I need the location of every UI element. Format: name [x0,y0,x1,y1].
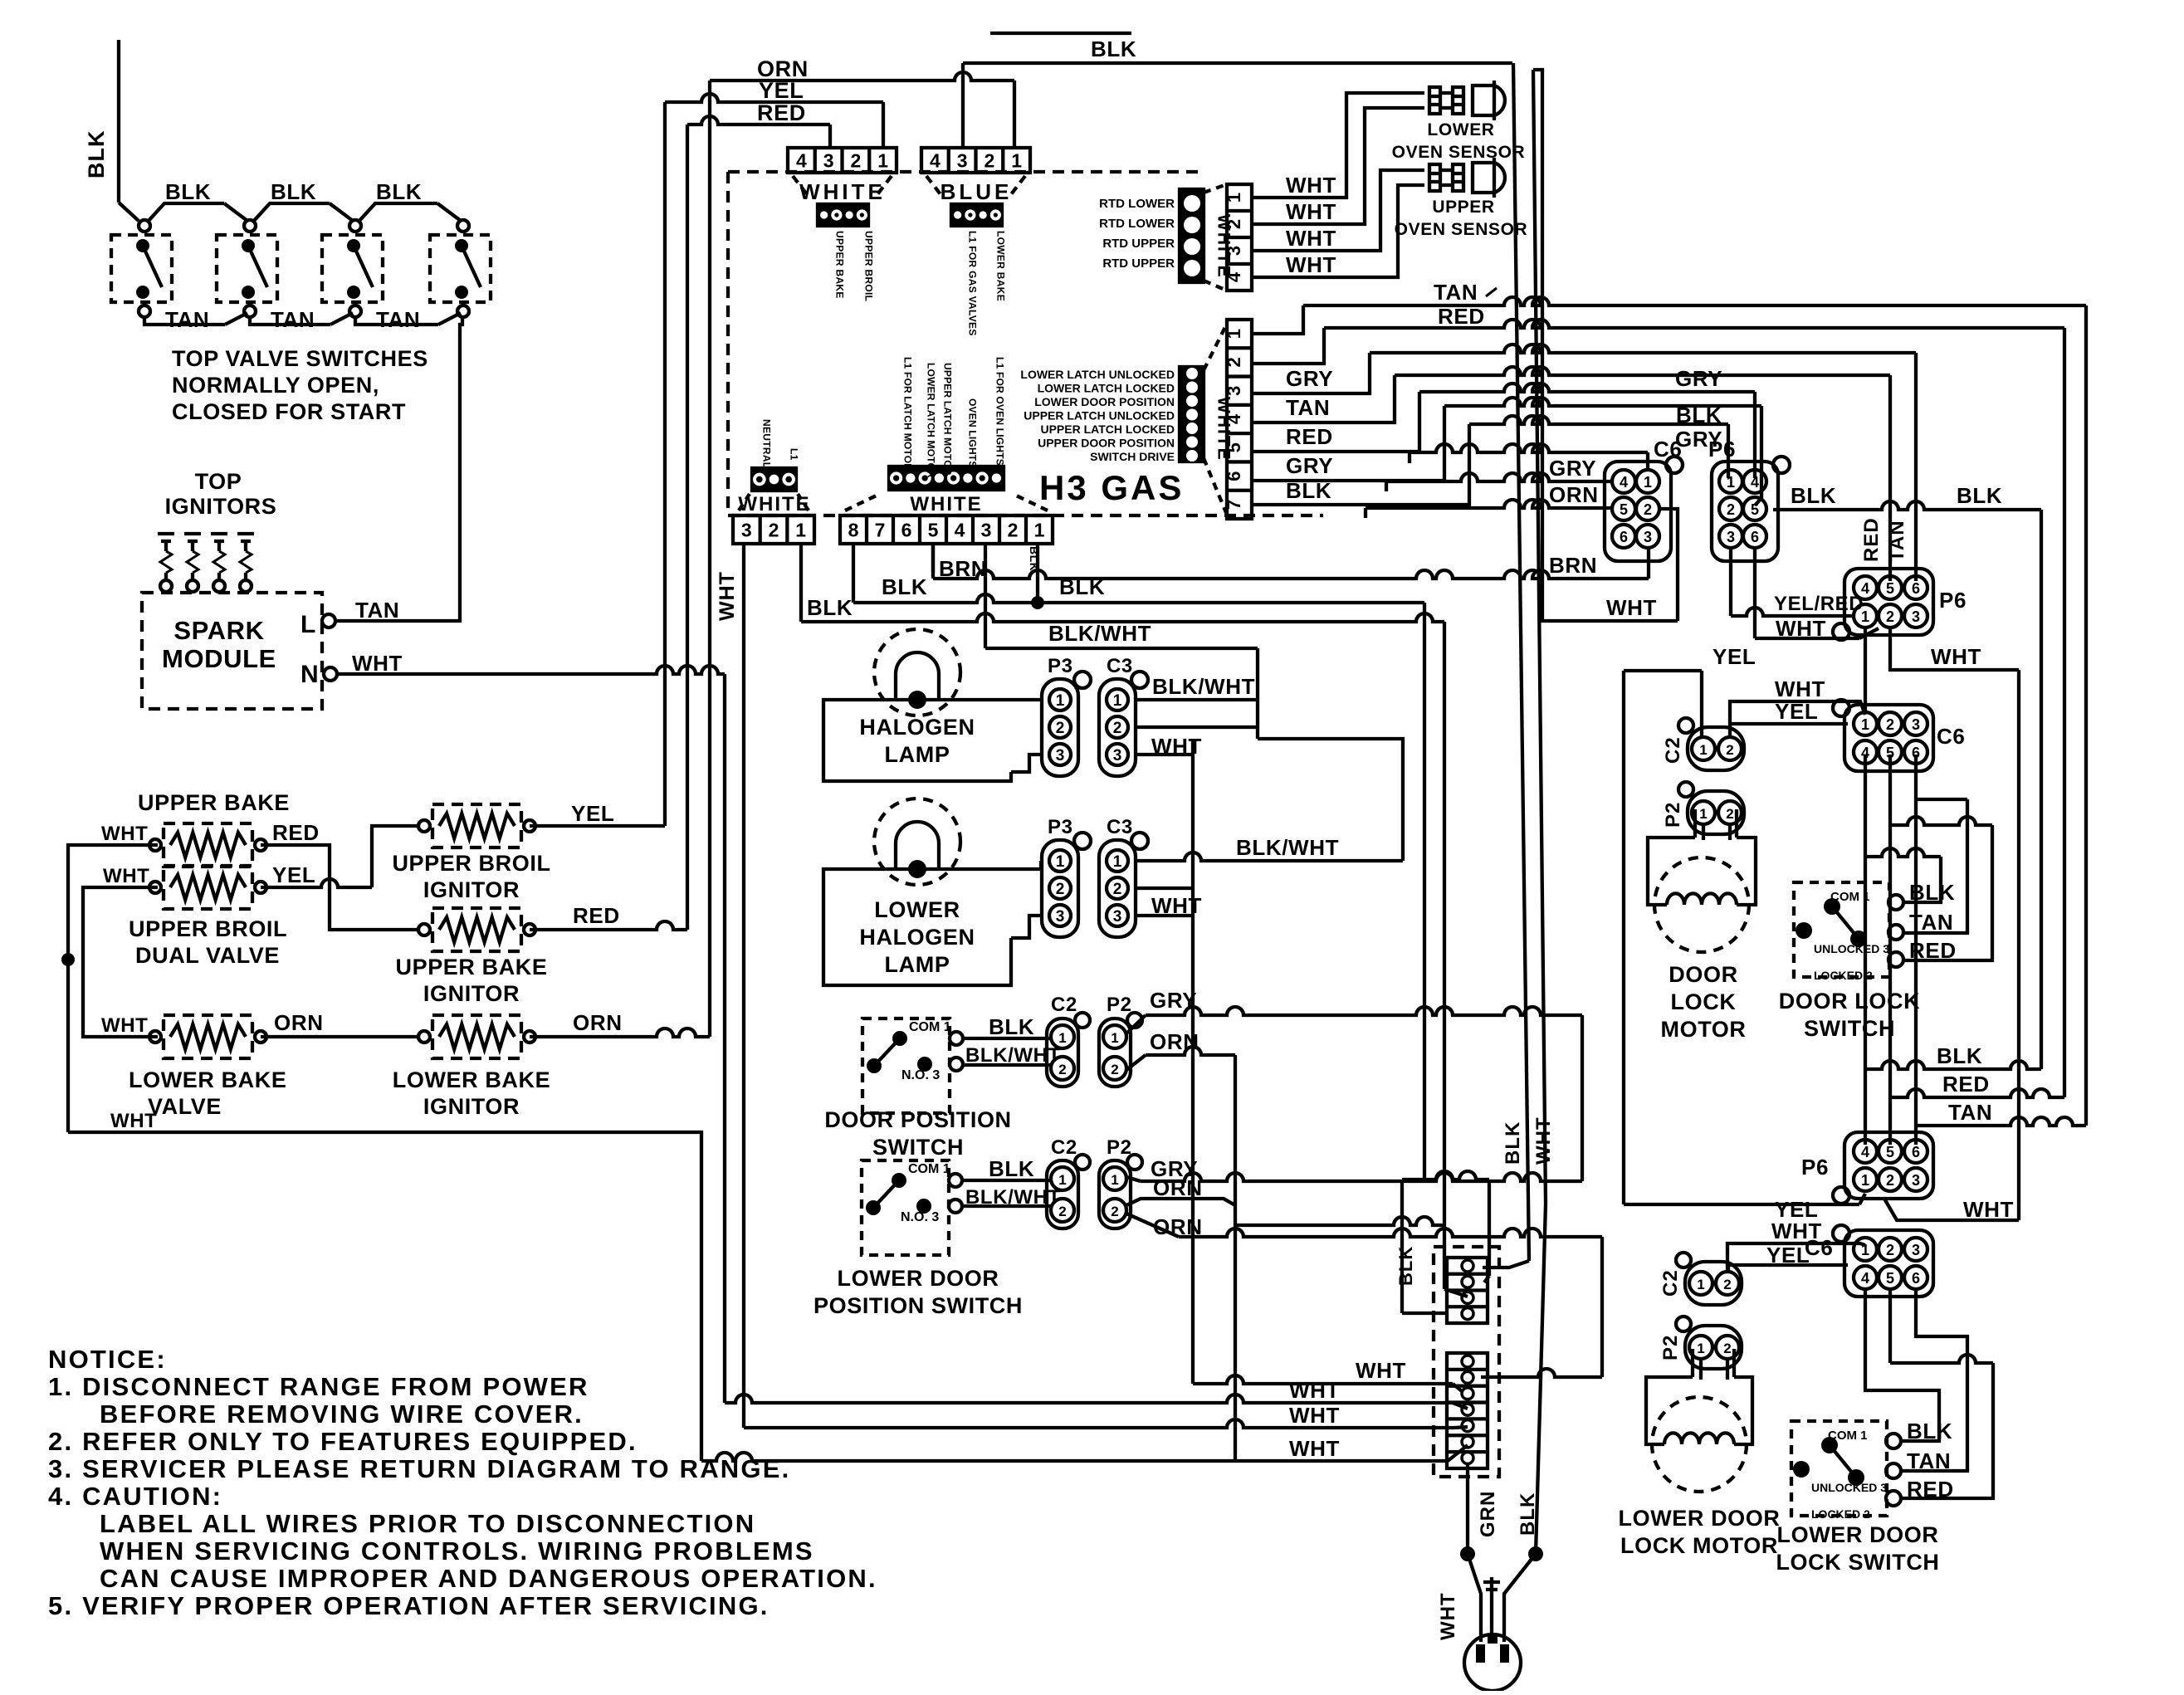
svg-text:WHT: WHT [101,823,148,845]
svg-text:WHT: WHT [1775,677,1825,701]
svg-text:1: 1 [1697,1341,1704,1356]
wire ORN to top riser [530,1028,710,1037]
wire lamp to P3 pin3 [1011,755,1042,772]
svg-text:3: 3 [1056,908,1065,926]
connector P3 lower [1042,840,1078,937]
svg-text:BLK: BLK [807,595,853,620]
svg-text:WHT: WHT [1286,252,1336,277]
svg-text:2: 2 [1886,1172,1894,1189]
lower door lock switch [1791,1421,1887,1516]
svg-text:OVEN LIGHTS: OVEN LIGHTS [966,398,978,468]
svg-text:ORN: ORN [1153,1214,1203,1239]
svg-text:RTD UPPER: RTD UPPER [1102,256,1175,271]
svg-text:SWITCH: SWITCH [1804,1016,1895,1041]
line segment above BLK [990,32,1131,35]
svg-text:P3: P3 [1048,816,1073,838]
svg-text:LOWER DOOR: LOWER DOOR [838,1266,999,1291]
wire WHT to P6h pin2 [1753,548,1756,638]
svg-text:LOWER: LOWER [874,897,960,922]
wire BLK long vertical to lower strip [1513,63,1529,1261]
wire WHT bottom run [68,1132,701,1461]
wire WHT vertical to bottom strip [723,674,726,1403]
svg-text:WHT: WHT [103,865,149,887]
svg-text:2: 2 [1726,806,1733,822]
connector strip WHITE 4321 [788,148,897,173]
svg-text:YEL: YEL [1775,699,1818,724]
lower bake ignitor [432,1015,521,1058]
svg-text:DUAL VALVE: DUAL VALVE [135,943,280,968]
svg-text:6: 6 [1224,471,1244,481]
svg-text:1: 1 [1699,806,1707,822]
wire YEL/RED to P6h pin1 [1729,548,1732,616]
svg-text:YEL: YEL [1766,1243,1810,1268]
svg-text:1: 1 [1056,853,1065,871]
svg-text:C3: C3 [1107,816,1133,838]
svg-text:TAN: TAN [1886,520,1908,562]
wire lamp box to P3L pin3 [1011,916,1042,938]
svg-text:UPPER BAKE: UPPER BAKE [138,790,290,815]
svg-text:IGNITOR: IGNITOR [423,981,520,1006]
wire C6L pin6 to TAN [1903,1288,1967,1471]
wire WHT from strip pin3 [742,544,745,1428]
wire WHT C3 pin3 [1136,753,1193,756]
svg-text:3: 3 [741,519,752,540]
svg-text:WHT: WHT [1356,1358,1406,1383]
svg-text:BLK: BLK [989,1156,1034,1181]
svg-text:BLUE: BLUE [941,179,1013,204]
wire GRY to C6u pin1 [1408,452,1411,463]
lower door position switch [862,1160,949,1255]
svg-text:3: 3 [1912,1242,1920,1258]
svg-text:4: 4 [1861,1270,1869,1287]
wire BLK link [253,203,330,222]
svg-text:UPPER BAKE: UPPER BAKE [395,955,547,979]
wire C3 pin2 riser [1136,725,1258,729]
svg-text:LAMP: LAMP [885,952,950,977]
svg-text:2: 2 [769,519,779,540]
svg-text:5: 5 [1886,1270,1894,1287]
svg-text:BLK: BLK [165,179,211,204]
wire lamp to P3L pin1 [917,861,1041,869]
svg-text:TAN: TAN [271,307,315,332]
top valve switch S4 box [430,235,491,302]
wire BLK/WHT switch to C2 lower [962,1204,1051,1208]
svg-text:1. DISCONNECT RANGE FROM POWE: 1. DISCONNECT RANGE FROM POWER [48,1372,589,1401]
svg-text:GRY: GRY [1286,453,1333,478]
svg-text:WHITE: WHITE [1214,397,1234,462]
connector C6 horizontal upper [1844,705,1933,771]
svg-text:GRY: GRY [1549,456,1596,481]
connector strip 87654321 [840,515,1053,544]
connector P2 lower door [1099,1160,1131,1229]
H3 GAS board dashed outline [728,170,1204,173]
svg-text:WHT: WHT [1776,616,1826,641]
svg-text:WHT: WHT [1931,644,1981,669]
svg-text:WHT: WHT [1437,1592,1459,1640]
svg-text:LOWER: LOWER [1427,120,1494,139]
svg-text:BLK: BLK [1937,1043,1982,1068]
wire TAN branch [1916,1117,2086,1126]
svg-text:WHT: WHT [1286,226,1336,251]
wire TAN bus (pin4) [1252,375,1395,423]
connector bar latch [1180,367,1204,462]
svg-text:BEFORE REMOVING WIRE COVER.: BEFORE REMOVING WIRE COVER. [100,1399,584,1429]
svg-text:UPPER: UPPER [1432,198,1494,217]
svg-text:BLK: BLK [1091,37,1136,61]
wire YEL to top riser [530,824,665,828]
halogen lamp box upper [823,700,1011,781]
wire BLK branch into strip1 pin4 [1400,1180,1404,1313]
svg-text:MODULE: MODULE [162,644,276,673]
wire ORN link between switches [1126,1199,1235,1205]
svg-text:RED: RED [1942,1072,1990,1097]
svg-text:C2: C2 [1659,1269,1682,1297]
svg-text:4: 4 [1620,474,1628,491]
wire WHT C2L to C6L pin1 [1727,1243,1865,1273]
wire WHT sensor 1 [1252,93,1424,198]
wire ORN to C6 pin5 [1364,508,1367,518]
svg-text:WHT: WHT [1286,199,1336,224]
svg-text:VALVE: VALVE [148,1094,222,1119]
svg-text:1: 1 [1056,692,1065,710]
connector bar RTD [1180,189,1204,282]
svg-text:1: 1 [795,519,806,540]
svg-text:IGNITOR: IGNITOR [423,877,520,902]
wire BLK/WHT C3L pin1 [1136,852,1403,861]
svg-text:BLK: BLK [1957,483,2002,508]
wire WHT C3L pin3 and vertical [1136,914,1193,917]
svg-text:RTD LOWER: RTD LOWER [1099,197,1175,211]
svg-text:IGNITOR: IGNITOR [423,1094,520,1119]
svg-text:1: 1 [1111,1172,1118,1188]
svg-text:C3: C3 [1107,655,1133,677]
wire ORN right tail [1600,1237,1604,1377]
wire RED top [687,116,830,125]
connector P2 lower right [1685,1326,1742,1369]
connector P2 door [1099,1018,1131,1087]
svg-text:BLK: BLK [84,130,109,179]
svg-text:P2: P2 [1659,1335,1682,1360]
svg-text:8: 8 [848,519,859,540]
svg-text:WHT: WHT [1963,1197,2014,1222]
svg-text:C6: C6 [1937,724,1965,749]
svg-text:2: 2 [850,149,861,171]
svg-text:YEL: YEL [759,78,804,103]
svg-text:MOTOR: MOTOR [1661,1017,1747,1042]
connector bar blue [951,204,1002,226]
svg-text:ORN: ORN [1549,482,1599,507]
top valve switch S3 contacts [349,220,361,232]
svg-text:WHEN SERVICING CONTROLS. WIRIN: WHEN SERVICING CONTROLS. WIRING PROBLEMS [100,1536,814,1566]
connector C3 lower [1099,840,1136,937]
svg-text:HALOGEN: HALOGEN [859,715,975,740]
svg-text:WHITE: WHITE [1214,214,1234,279]
svg-text:LOWER DOOR: LOWER DOOR [1777,1522,1939,1547]
svg-text:4: 4 [955,519,965,540]
svg-text:OVEN SENSOR: OVEN SENSOR [1395,220,1528,239]
wire BLK feed vertical [117,40,120,203]
connector P6 horizontal lower [1844,1132,1933,1199]
wire GRY bus (pin3) [1252,353,1370,393]
svg-text:LOWER DOOR POSITION: LOWER DOOR POSITION [1034,395,1175,408]
wire GRY vertical link [1581,1015,1584,1181]
terminal strips dashed box [1434,1247,1499,1477]
svg-text:GRY: GRY [1286,366,1333,391]
halogen lamp box lower [823,869,1011,985]
svg-text:2: 2 [1726,742,1733,758]
svg-text:TAN: TAN [165,307,209,332]
svg-text:SWITCH DRIVE: SWITCH DRIVE [1090,450,1175,463]
svg-text:3: 3 [981,519,992,540]
svg-text:SPARK: SPARK [173,616,264,645]
svg-text:WHT: WHT [1606,595,1657,620]
svg-text:P6: P6 [1801,1155,1829,1180]
svg-text:6: 6 [1751,529,1759,545]
svg-text:HALOGEN: HALOGEN [859,925,975,950]
svg-text:3: 3 [1113,908,1122,926]
svg-text:RTD LOWER: RTD LOWER [1099,217,1175,231]
wire YEL top [665,94,883,102]
svg-text:UNLOCKED 3: UNLOCKED 3 [1814,942,1889,955]
svg-text:UPPER BROIL: UPPER BROIL [392,851,550,876]
upper bake valve resistor [164,823,252,867]
wire GRY to C6 pin4 [1385,481,1388,491]
top ignitor 4 [237,532,254,535]
svg-text:7: 7 [875,519,886,540]
wire GRY bus (pin5) [1252,392,1419,452]
wire C6L pin4 to BLK [1865,1288,1939,1441]
svg-text:4: 4 [930,149,941,171]
wire TAN link [250,317,330,325]
wire WHT from spark N bottom [725,1395,1453,1403]
svg-text:2: 2 [1727,501,1735,518]
svg-text:GRN: GRN [1477,1491,1499,1537]
svg-text:BLK: BLK [271,179,316,204]
svg-text:RED: RED [573,903,620,928]
svg-text:BLK: BLK [1059,574,1105,599]
top ignitor 1 [158,532,174,535]
wire BRN to C6 pin3 [931,544,935,579]
svg-text:LOWER DOOR: LOWER DOOR [1619,1506,1781,1531]
svg-text:L: L [300,611,316,638]
top ignitor 3 [211,532,227,535]
wire GRN to plug [1490,1577,1493,1634]
svg-text:GRY: GRY [1150,988,1197,1013]
svg-text:P2: P2 [1107,994,1132,1016]
wire C6u pin2 to WHT [1659,509,1678,621]
wire WHT from N to right bus [337,666,725,674]
svg-text:WHT: WHT [1771,1219,1822,1243]
svg-text:3. SERVICER PLEASE RETURN DIA: 3. SERVICER PLEASE RETURN DIAGRAM TO RAN… [48,1454,790,1483]
svg-text:1: 1 [1113,853,1122,871]
top valve switch S3 box [322,235,383,302]
svg-text:1: 1 [1861,1172,1869,1189]
wire P2u pins to motor [1702,823,1705,840]
spark module box [142,593,322,709]
wire WHT into strip2 c2 from right [1481,1369,1602,1377]
svg-text:2: 2 [1886,716,1894,733]
wire ORN top [710,72,1014,81]
wire RED switch [1903,825,1992,960]
top valve switch S2 box [217,235,277,302]
wire BLK link [148,203,224,222]
svg-text:LOWER LATCH UNLOCKED: LOWER LATCH UNLOCKED [1020,368,1175,381]
svg-text:WHT: WHT [352,651,403,676]
svg-text:2: 2 [984,149,994,171]
svg-text:BLK: BLK [1395,1246,1416,1286]
svg-text:GRY: GRY [1675,366,1722,391]
wire BLK link [359,203,437,222]
svg-text:LOWER LATCH LOCKED: LOWER LATCH LOCKED [1038,382,1175,395]
top valve switch S1 box [111,235,172,302]
svg-text:BLK/WHT: BLK/WHT [965,1186,1061,1209]
svg-text:TAN: TAN [1434,280,1478,305]
lower door lock motor [1691,1349,1694,1377]
svg-text:WHT: WHT [1532,1116,1555,1165]
connector C6 horizontal lower [1844,1230,1933,1297]
svg-text:3: 3 [1056,747,1065,764]
svg-text:1: 1 [1224,329,1244,339]
wire BLK switch [1903,857,1941,902]
top valve switch S2 contacts [244,220,256,232]
svg-text:2. REFER ONLY TO FEATURES EQU: 2. REFER ONLY TO FEATURES EQUIPPED. [48,1427,638,1456]
wire RED bus (pin2) [1252,328,1324,364]
svg-text:WHT: WHT [1286,173,1336,198]
connector bar white [818,204,868,226]
svg-text:LAMP: LAMP [885,742,950,767]
upper oven sensor [1429,164,1440,191]
svg-text:1: 1 [1861,716,1869,733]
svg-text:4: 4 [1861,580,1869,597]
svg-text:1: 1 [877,149,888,171]
upper broil ignitor [432,804,521,847]
svg-text:P3: P3 [1048,655,1073,677]
svg-text:NORMALLY OPEN,: NORMALLY OPEN, [172,373,379,398]
connector C2 lower right [1685,1262,1742,1305]
svg-text:IGNITORS: IGNITORS [165,494,277,519]
svg-text:ORN: ORN [274,1010,324,1035]
wire YEL valve to upper broil ignitor [261,879,372,887]
svg-text:WHITE: WHITE [910,493,982,515]
halogen lamp symbol lower [874,799,960,885]
svg-text:BLK: BLK [1502,1121,1524,1165]
svg-text:BLK/WHT: BLK/WHT [1048,621,1151,646]
wire C6L pin5 to RED [1888,1288,1892,1363]
svg-text:P2: P2 [1107,1136,1132,1159]
door position switch [862,1018,950,1113]
wire BLK riser strip pin1 [1036,544,1039,603]
svg-text:5: 5 [1620,501,1628,518]
svg-text:RED: RED [272,820,320,845]
connector strip 1-7 vertical [1227,320,1252,519]
upper broil valve resistor [164,866,252,909]
svg-text:N.O. 3: N.O. 3 [901,1068,940,1082]
wire ORN valve to ignitor [261,1035,419,1038]
svg-text:C6: C6 [1654,437,1682,462]
svg-text:N: N [300,661,319,688]
svg-text:6: 6 [901,519,912,540]
svg-text:2: 2 [1111,1204,1118,1219]
svg-text:BLK/WHT: BLK/WHT [1236,835,1339,860]
svg-text:UPPER BAKE: UPPER BAKE [833,231,845,299]
svg-text:WHT: WHT [101,1014,148,1037]
wire C6u pin5 down to P6L pin5 [1888,755,1892,1145]
svg-text:RED: RED [1286,424,1333,449]
svg-text:6: 6 [1912,580,1920,597]
svg-text:UNLOCKED 3: UNLOCKED 3 [1811,1481,1887,1494]
wire YEL C2u pin1 riser [1700,671,1703,739]
wire BRN riser strip pin5 [931,544,935,573]
connector C3 upper [1099,679,1136,776]
svg-text:1: 1 [1697,1277,1704,1292]
svg-text:UPPER LATCH MOTOR: UPPER LATCH MOTOR [941,363,953,476]
wire lamp to P3 pin1 [917,698,1041,701]
svg-text:BLK: BLK [1028,546,1041,571]
svg-text:BRN: BRN [1549,553,1597,578]
svg-text:2: 2 [1113,881,1122,898]
svg-text:1: 1 [1034,519,1045,540]
wire BLK switch to C2 [963,1037,1051,1040]
wire WHT long vertical to plug [1533,70,1542,621]
door lock switch [1794,882,1889,977]
svg-text:LOCK: LOCK [1671,989,1737,1014]
svg-text:P2: P2 [1662,802,1684,828]
svg-text:COM 1: COM 1 [909,1020,951,1034]
wire GRY from P2 pin1 [1126,1015,1146,1033]
svg-text:P6: P6 [1939,588,1967,613]
svg-text:1: 1 [1224,193,1244,203]
wire ORN descent [1234,1237,1237,1461]
svg-text:UPPER LATCH UNLOCKED: UPPER LATCH UNLOCKED [1024,409,1175,423]
svg-text:CAN CAUSE IMPROPER AND DANGERO: CAN CAUSE IMPROPER AND DANGEROUS OPERATI… [100,1564,877,1593]
svg-text:LOCKED 2: LOCKED 2 [1811,1507,1870,1521]
svg-text:BLK/WHT: BLK/WHT [965,1044,1061,1067]
svg-text:6: 6 [1912,1144,1920,1160]
svg-text:NEUTRAL: NEUTRAL [760,419,772,468]
svg-text:WHT: WHT [1289,1436,1340,1461]
svg-text:YEL/RED: YEL/RED [1774,593,1864,615]
svg-text:LABEL ALL WIRES PRIOR TO DISCO: LABEL ALL WIRES PRIOR TO DISCONNECTION [100,1509,755,1538]
svg-text:C2: C2 [1051,994,1077,1016]
wire RED to top riser [530,921,687,930]
svg-text:TAN: TAN [1286,395,1330,420]
wire BLK from strip 321 pin1 [799,544,803,622]
wire RED branch [1890,1089,2064,1097]
svg-text:4. CAUTION:: 4. CAUTION: [48,1482,222,1511]
svg-text:3: 3 [1912,608,1920,625]
svg-text:TAN: TAN [1948,1100,1992,1125]
terminal strip upper 4 [1447,1258,1488,1323]
svg-text:BLK: BLK [376,179,422,204]
svg-text:WHT: WHT [1289,1403,1340,1428]
svg-text:3: 3 [957,149,968,171]
wire ORN from P2 pin2 [1126,1055,1146,1070]
wire BLK vertical right [2040,510,2043,1069]
connector C6 upper [1605,462,1671,561]
wire WHT C2u to C6u pin1 [1730,701,1865,739]
svg-text:UPPER BROIL: UPPER BROIL [129,916,287,941]
svg-text:5: 5 [1886,1144,1894,1160]
svg-text:3: 3 [1644,529,1652,545]
svg-text:H3 GAS: H3 GAS [1039,468,1184,507]
svg-text:5: 5 [1886,580,1894,597]
svg-text:6: 6 [1912,1270,1920,1287]
top valve switch S1 contacts [139,220,150,232]
svg-text:CLOSED FOR START: CLOSED FOR START [172,399,406,424]
svg-text:3: 3 [1727,529,1735,545]
wire GRY from P2L pin1 [1126,1177,1141,1181]
svg-text:5. VERIFY PROPER OPERATION AF: 5. VERIFY PROPER OPERATION AFTER SERVICI… [48,1591,770,1620]
